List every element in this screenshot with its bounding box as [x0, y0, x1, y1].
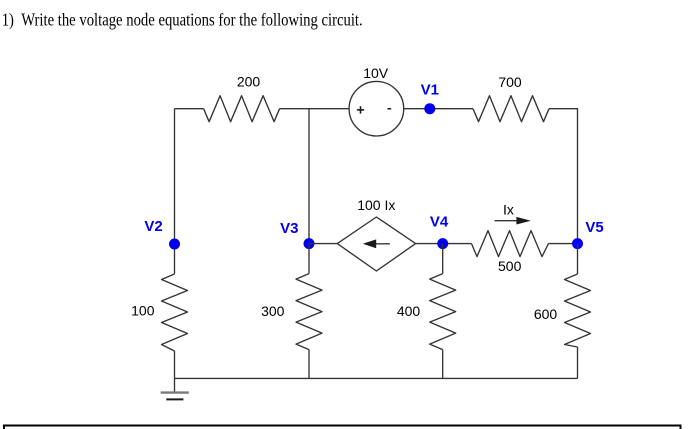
svg-text:V2: V2 — [144, 218, 162, 235]
wire V4 column below — [442, 244, 444, 274]
svg-text:Ix: Ix — [503, 201, 514, 217]
wire from VS to R700 — [404, 108, 473, 110]
svg-text:100 Ix: 100 Ix — [357, 197, 395, 213]
wire from 700 to top-right corner and down — [549, 109, 578, 244]
wire R300 to bottom — [308, 350, 310, 379]
svg-text:V1: V1 — [421, 81, 439, 98]
wire R400 to bottom — [442, 350, 444, 379]
wire top-left horizontal lead — [175, 108, 204, 110]
svg-text:100: 100 — [131, 303, 155, 319]
wire V3 to diamond — [309, 243, 337, 245]
resistor R 600 — [565, 274, 591, 347]
svg-text:1) Write the voltage node equ: 1) Write the voltage node equations for … — [2, 9, 363, 29]
resistor R 200 — [204, 96, 280, 122]
bottom wire — [175, 377, 578, 379]
node V2 dot — [169, 239, 180, 250]
VS minus sign — [388, 108, 392, 110]
answer box — [4, 426, 681, 429]
svg-text:200: 200 — [237, 74, 261, 90]
resistor R 500 — [472, 231, 549, 257]
svg-text:400: 400 — [397, 303, 421, 319]
resistor R 300 — [296, 274, 322, 350]
svg-text:10V: 10V — [363, 65, 389, 81]
svg-text:V3: V3 — [280, 220, 298, 237]
wire from 200 to voltage source — [280, 108, 350, 110]
wire V3 column below — [308, 244, 310, 274]
resistor R 100 — [162, 274, 188, 351]
resistor R 400 — [430, 274, 456, 350]
voltage source VS 10V — [349, 81, 404, 136]
svg-text:700: 700 — [498, 74, 522, 90]
dependent source arrow — [363, 239, 390, 248]
ground — [161, 393, 189, 400]
node V5 dot — [572, 238, 583, 249]
svg-text:V5: V5 — [585, 219, 603, 236]
wire R500 to V5 — [549, 243, 578, 245]
wire middle vertical from top to V3 — [308, 109, 310, 244]
dependent source 100Ix diamond — [337, 217, 415, 271]
wire left vertical — [174, 109, 176, 274]
node V3 dot — [304, 238, 315, 249]
node V1 dot — [424, 103, 435, 114]
wire diamond to V4 and on to R500 — [416, 243, 472, 245]
wire V5 column below — [577, 244, 579, 274]
wire R600 to bottom — [577, 347, 579, 378]
resistor R 700 — [473, 96, 549, 122]
node V4 dot — [437, 238, 448, 249]
VS plus sign — [357, 106, 364, 113]
current Ix arrow — [495, 217, 531, 225]
svg-text:300: 300 — [261, 303, 285, 319]
wire below R100 to ground — [174, 351, 176, 393]
svg-text:600: 600 — [534, 306, 558, 322]
svg-text:V4: V4 — [430, 213, 449, 230]
svg-text:500: 500 — [498, 258, 522, 274]
